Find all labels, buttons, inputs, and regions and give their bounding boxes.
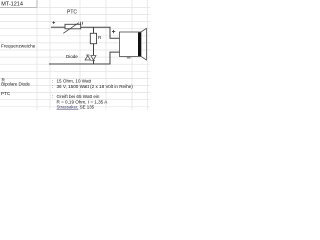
legend PTC line 2	[57, 99, 109, 104]
resistor R	[90, 33, 102, 43]
wire junction down to resistor	[93, 27, 95, 33]
bottom return rail wire	[49, 63, 111, 65]
bipolar diode D1 (antiparallel pair)	[85, 55, 96, 61]
label PTC	[67, 9, 77, 15]
node + (input plus terminal)	[52, 21, 55, 24]
legend row PTC	[1, 91, 100, 99]
wire input to PTC	[51, 26, 65, 28]
wire top bend down to speaker plus terminal	[110, 27, 120, 38]
loudspeaker LS1	[120, 28, 147, 60]
legend row Bipolare Diode	[1, 82, 133, 90]
node - (speaker minus dash)	[127, 57, 131, 59]
svg-text:Diode: Diode	[66, 54, 78, 59]
legend row R	[2, 77, 92, 83]
svg-text:PTC: PTC	[1, 91, 11, 96]
label Diode	[66, 54, 78, 59]
wire bottom rail up to speaker minus terminal	[110, 52, 120, 64]
wire resistor to diode	[93, 44, 95, 55]
node + (speaker plus)	[112, 30, 115, 33]
svg-text:PTC: PTC	[67, 9, 77, 15]
svg-text::: :	[52, 94, 53, 99]
spreadsheet gridlines (decorative)	[0, 0, 150, 110]
svg-text:36 V, 1500 Watt (2 x 18 Volt i: 36 V, 1500 Watt (2 x 18 Volt in Reihe)	[57, 84, 134, 89]
svg-text:15 Ohm, 10 Watt: 15 Ohm, 10 Watt	[57, 79, 92, 84]
PTC thermistor RT1	[63, 22, 82, 34]
svg-text::: :	[52, 84, 53, 89]
wire PTC to speaker bend	[81, 26, 111, 28]
legend PTC line 3 link Strassaker	[57, 104, 95, 109]
svg-text:Frequenzweiche: Frequenzweiche	[1, 43, 36, 48]
label Frequenzweiche	[1, 43, 36, 48]
svg-text::: :	[52, 79, 53, 84]
svg-text:Strassaker, SE 135: Strassaker, SE 135	[57, 104, 95, 109]
wire diode to bottom rail	[93, 61, 95, 65]
title cell MT-1214	[0, 0, 37, 8]
svg-text:MT-1214: MT-1214	[1, 2, 23, 8]
svg-text:Bipolare Diode: Bipolare Diode	[1, 82, 30, 87]
